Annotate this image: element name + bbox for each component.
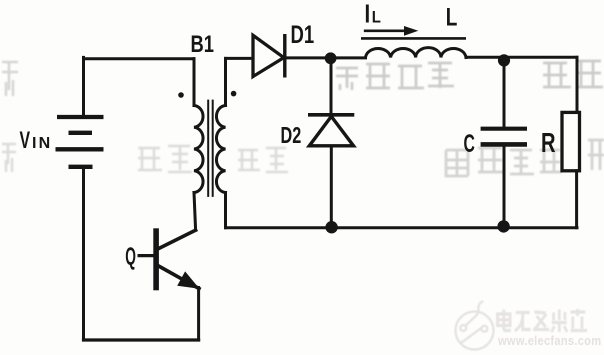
transformer B1 secondary lead top [224, 58, 227, 105]
svg-text:D2: D2 [281, 123, 302, 149]
transistor Q base bar [153, 228, 159, 290]
label IL [365, 0, 382, 28]
junction node dot bottom C [497, 220, 509, 232]
wire: battery top vertical [82, 57, 85, 115]
capacitor C lead top [503, 60, 506, 126]
transformer B1 secondary lead bottom [224, 193, 227, 228]
wire: D1 to node A [286, 56, 366, 59]
inductor L winding [366, 48, 467, 58]
wire: R bottom lead [575, 171, 578, 228]
svg-text:www.elecfans.com: www.elecfans.com [497, 333, 601, 348]
svg-text:B1: B1 [191, 29, 214, 57]
junction node dot at D1/D2/L [325, 52, 337, 64]
transistor Q emitter diagonal [159, 266, 199, 289]
wire: battery bottom vertical down left side [82, 169, 85, 340]
wire: inductor to R branch top [466, 56, 577, 59]
svg-text:IN: IN [32, 135, 52, 152]
transistor Q emitter arrowhead [177, 271, 199, 288]
transformer B1 secondary winding [216, 106, 225, 193]
transistor Q base wire [139, 254, 153, 257]
wire: top rail secondary to D1 [226, 57, 254, 60]
capacitor C lead bottom [503, 147, 506, 226]
wire: R branch vertical top [576, 57, 579, 112]
capacitor C plate top [483, 127, 525, 131]
diode D1 triangle [253, 35, 284, 76]
transformer polarity dot primary [178, 92, 184, 98]
svg-text:Q: Q [125, 244, 136, 271]
junction node dot bottom D2 [325, 221, 337, 233]
transistor Q collector diagonal [159, 230, 196, 248]
battery VIN plate short [71, 131, 90, 135]
label VIN [20, 128, 53, 154]
svg-text:R: R [541, 128, 556, 159]
watermark background text row B (mirrored bleed-through) [446, 140, 604, 176]
diode D2 triangle [309, 116, 353, 145]
transformer polarity dot secondary [231, 91, 237, 97]
transformer B1 core [208, 101, 213, 196]
svg-text:L: L [372, 9, 381, 27]
watermark fragment top-left corner [2, 62, 18, 96]
battery VIN plate short bottom [71, 165, 91, 169]
diode D2 lead top [330, 58, 333, 113]
elecfans watermark chinese text 电子发烧友 [497, 309, 587, 332]
elecfans watermark logo circle [456, 301, 494, 349]
battery VIN plate long lower [58, 147, 102, 151]
IL arrowhead [404, 26, 418, 36]
diode D2 cathode bar [310, 113, 353, 117]
wire: top-left from battery to transformer primary [84, 57, 195, 60]
watermark background text row A (mirrored bleed-through) [336, 61, 603, 90]
diode D1 cathode bar [283, 36, 286, 76]
diode D2 lead bottom [330, 146, 333, 227]
line under L label [362, 37, 464, 40]
svg-text:C: C [464, 130, 475, 158]
wire: emitter vertical [197, 288, 200, 341]
wire: bottom return to emitter [84, 338, 199, 341]
svg-text:V: V [20, 128, 31, 154]
transformer B1 primary winding [194, 106, 203, 193]
svg-text:I: I [365, 0, 371, 28]
svg-text:L: L [446, 3, 458, 31]
wire: bottom rail [226, 226, 578, 229]
junction node dot at L/C/R [498, 54, 510, 66]
IL arrow line [365, 29, 405, 32]
battery VIN plate long top [59, 115, 101, 119]
svg-text:D1: D1 [291, 20, 315, 48]
resistor R box [562, 112, 580, 170]
transformer B1 primary lead top [193, 59, 196, 106]
capacitor C plate bottom [483, 142, 525, 147]
transformer B1 primary lead bottom to collector [194, 193, 196, 231]
watermark background text row C (faint, behind transformer) [2, 144, 288, 172]
